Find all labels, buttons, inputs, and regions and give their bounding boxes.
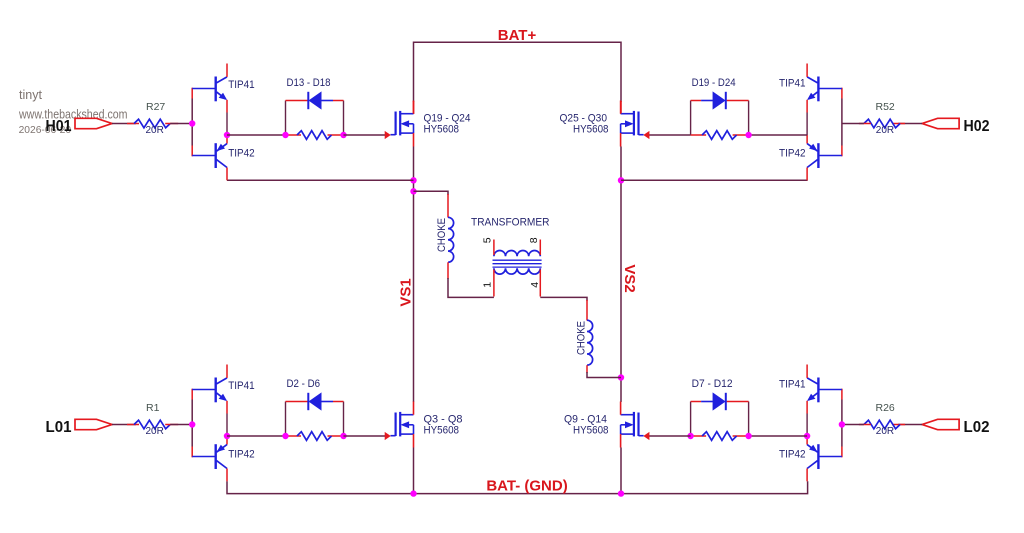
svg-text:20R: 20R (146, 426, 164, 437)
pin bottom-left TIP41 collector (226, 365, 228, 378)
pin R52 left (859, 123, 871, 125)
label L01 (46, 419, 72, 436)
label Q19 type (424, 124, 460, 136)
pin D13 - D18 anode (333, 100, 344, 102)
label VS1 (398, 278, 415, 306)
diode D19 - D24 (701, 92, 726, 109)
svg-text:L02: L02 (964, 419, 990, 436)
wire top-right output (749, 134, 808, 136)
junction BAT- right (618, 490, 624, 496)
pin bottom-left TIP41 emitter (226, 401, 228, 414)
pin T1 5 (493, 240, 495, 256)
diode D2 - D6 (308, 393, 333, 410)
transformer T1 secondary winding (494, 250, 540, 256)
pin top-right TIP42 collector (806, 168, 808, 181)
pin top-left damping resistor left (286, 134, 302, 136)
pin R1 left (127, 424, 139, 426)
wire top-left bases vertical (191, 88, 193, 157)
label R52 (876, 101, 895, 113)
wire R27 to bases (170, 123, 192, 125)
wire bottom-left diode branch (286, 402, 344, 437)
transistor bottom-left TIP41 (192, 378, 227, 403)
svg-text:R1: R1 (146, 402, 160, 414)
junction bottom-right diode box left (745, 433, 751, 439)
pin Q25 source (620, 133, 622, 146)
svg-text:1: 1 (481, 282, 493, 288)
wire bottom-right gate (649, 435, 691, 437)
mosfet Q3 - Q8 (391, 412, 414, 437)
wire VS1 to choke (414, 191, 449, 195)
pin D2 - D6 anode (333, 401, 344, 403)
label bottom-left TIP42 (228, 449, 255, 461)
pin R52 right (892, 123, 905, 125)
label top-right TIP41 (779, 78, 806, 90)
transistor top-left TIP41 (192, 77, 227, 102)
pin bottom-left TIP42 emitter (226, 436, 228, 445)
wire bottom-left output (227, 435, 286, 437)
pin Q19 drain top (413, 101, 415, 114)
svg-text:VS1: VS1 (398, 278, 415, 306)
svg-text:D13 - D18: D13 - D18 (287, 77, 331, 89)
svg-text:VS2: VS2 (621, 264, 638, 292)
label D7 - D12 (692, 378, 733, 390)
pin top-right TIP41 emitter (806, 100, 808, 113)
label R27 (146, 101, 165, 113)
label Q25 - Q30 (560, 113, 608, 125)
wire bottom-right output (749, 435, 808, 437)
resistor R52 (864, 119, 900, 128)
label R52 value (876, 125, 894, 136)
svg-text:D7 - D12: D7 - D12 (692, 378, 733, 390)
transformer T1 core (493, 260, 542, 267)
svg-text:TRANSFORMER: TRANSFORMER (471, 216, 550, 228)
label D13 - D18 (287, 77, 331, 89)
arrow top-right gate (644, 132, 649, 139)
pin top-left TIP41 emitter (226, 100, 228, 113)
pin bottom-right TIP42 collector (806, 469, 808, 482)
wire top-left diode branch (286, 101, 344, 136)
label H01 (46, 118, 72, 135)
label T1 pin 4 (529, 282, 541, 288)
label TRANSFORMER (471, 216, 550, 228)
watermark tinyt (19, 87, 42, 102)
port H02 (922, 118, 959, 128)
svg-text:TIP42: TIP42 (228, 148, 255, 160)
wire top-right bases vertical (841, 88, 843, 157)
pin top-right damping resistor left (691, 134, 707, 136)
resistor R26 (864, 420, 900, 429)
label R1 value (146, 426, 164, 437)
label Q3 type (424, 425, 460, 437)
pin choke L1 bottom (447, 262, 449, 279)
label T1 pin 5 (481, 237, 493, 243)
wire top-left output (227, 134, 286, 136)
label top-right TIP42 (779, 148, 806, 160)
label R27 value (146, 125, 164, 136)
svg-text:TIP41: TIP41 (228, 79, 255, 91)
svg-text:TIP41: TIP41 (228, 380, 255, 392)
label Q9 - Q14 (564, 414, 607, 426)
wire top-right TIP42 collector to VS2 (621, 179, 808, 181)
pin Q9 drain (620, 402, 622, 415)
junction bottom-right diode box right (687, 433, 693, 439)
label L2 CHOKE (576, 321, 588, 355)
resistor R27 (134, 119, 170, 128)
pin R1 right (165, 424, 178, 426)
svg-text:HY5608: HY5608 (424, 124, 460, 136)
svg-text:20R: 20R (146, 125, 164, 136)
pin Q9 source (620, 434, 622, 447)
port L02 (922, 419, 959, 429)
wire R26 to bases (842, 424, 864, 426)
pin R27 left (127, 123, 139, 125)
junction bottom-right input (839, 421, 845, 427)
wire bottom-left bases vertical (191, 389, 193, 458)
label T1 pin 8 (528, 237, 540, 243)
wire choke to transformer pin1 (448, 278, 494, 297)
pin R27 right (165, 123, 178, 125)
junction bottom-left output (224, 433, 230, 439)
junction top-left output (224, 132, 230, 138)
pin bottom-left damping resistor right (328, 435, 344, 437)
pin bottom-left TIP42 collector (226, 469, 228, 482)
label bottom-right TIP41 (779, 379, 806, 391)
label top-left TIP42 (228, 148, 255, 160)
label R26 (876, 402, 895, 414)
mosfet Q9 - Q14 (621, 412, 644, 437)
pin bottom-right damping resistor left (691, 435, 707, 437)
inductor L1 CHOKE (448, 217, 454, 262)
label R1 (146, 402, 160, 414)
junction bottom-left diode box left (282, 433, 288, 439)
pin D7 - D12 cathode (727, 401, 749, 403)
svg-text:HY5608: HY5608 (573, 124, 609, 136)
transistor top-right TIP42 (807, 143, 842, 168)
pin top-right TIP42 emitter (806, 135, 808, 144)
pin choke L1 top (447, 194, 449, 218)
transformer T1 primary winding (494, 268, 540, 274)
wire transformer pin4 to choke (540, 297, 587, 301)
port L01 (75, 419, 112, 429)
junction VS2 upper (618, 177, 624, 183)
pin D19 - D24 anode (691, 100, 702, 102)
svg-text:H02: H02 (964, 118, 990, 135)
watermark date (19, 124, 72, 136)
pin T1 4 (539, 270, 541, 297)
pin bottom-right TIP42 emitter (806, 436, 808, 445)
wire top-left TIP42 collector to VS1 (227, 179, 414, 181)
pin D7 - D12 anode (691, 401, 702, 403)
svg-text:TIP42: TIP42 (228, 449, 255, 461)
wire bottom-right port to resistor (898, 424, 922, 426)
pin bottom-left damping resistor left (286, 435, 302, 437)
junction top-left input (189, 120, 195, 126)
pin top-right TIP41 collector (806, 64, 808, 77)
wire top-left emitters (226, 113, 228, 136)
resistor bottom-right damping (702, 432, 737, 441)
svg-text:TIP41: TIP41 (779, 78, 806, 90)
pin bottom-right TIP41 emitter (806, 401, 808, 414)
pin D2 - D6 cathode (286, 401, 308, 403)
svg-text:BAT- (GND): BAT- (GND) (486, 478, 567, 495)
wire bottom-right emitters (806, 414, 808, 437)
label D19 - D24 (692, 77, 736, 89)
wire VS1 (413, 147, 415, 403)
label T1 pin 1 (481, 282, 493, 288)
pin T1 8 (539, 240, 541, 256)
svg-text:BAT+: BAT+ (498, 27, 537, 44)
label L02 (964, 419, 990, 436)
svg-text:20R: 20R (876, 426, 894, 437)
wire BAT- rail (227, 481, 808, 493)
inductor L2 CHOKE (587, 320, 593, 365)
pin D13 - D18 cathode (286, 100, 308, 102)
wire top-right gate (649, 134, 691, 136)
transistor top-right TIP41 (807, 77, 842, 102)
svg-text:TIP42: TIP42 (779, 148, 806, 160)
wire bottom-left port to resistor (112, 424, 136, 426)
wire bottom-right bases vertical (841, 389, 843, 458)
junction VS1 choke tap (410, 188, 416, 194)
svg-text:4: 4 (529, 282, 541, 288)
junction top-left diode box right (340, 132, 346, 138)
label top-left TIP41 (228, 79, 255, 91)
junction BAT- left (410, 490, 416, 496)
port H01 (75, 118, 112, 128)
pin D19 - D24 cathode (727, 100, 749, 102)
wire bottom-left emitters (226, 414, 228, 437)
svg-text:20R: 20R (876, 125, 894, 136)
pin top-left TIP42 emitter (226, 135, 228, 144)
junction VS2 choke tap (618, 374, 624, 380)
svg-text:D2 - D6: D2 - D6 (287, 378, 321, 390)
pin bottom-right damping resistor right (733, 435, 749, 437)
wire top-right emitters (806, 113, 808, 136)
arrow bottom-right gate (644, 433, 649, 440)
wire Q3 source to BAT- (413, 448, 415, 494)
svg-text:L01: L01 (46, 419, 72, 436)
wire bottom-right diode branch (691, 402, 749, 437)
mosfet Q25 - Q30 (621, 111, 644, 135)
pin Q25 drain top (620, 101, 622, 114)
wire R1 to bases (170, 424, 192, 426)
wire top-left port to resistor (112, 123, 136, 125)
pin top-left damping resistor right (328, 134, 344, 136)
arrow top-left gate (385, 132, 390, 139)
svg-text:H01: H01 (46, 118, 72, 135)
wire choke to VS2 (587, 372, 621, 378)
label VS2 (621, 264, 638, 292)
junction bottom-left input (189, 421, 195, 427)
svg-text:tinyt: tinyt (19, 87, 42, 102)
diode D13 - D18 (308, 92, 333, 109)
pin bottom-right TIP41 collector (806, 365, 808, 378)
svg-text:CHOKE: CHOKE (576, 321, 588, 355)
pin Q19 drain (413, 101, 415, 114)
svg-text:R26: R26 (876, 402, 895, 414)
junction VS1 upper (410, 177, 416, 183)
wire R52 to bases (842, 123, 864, 125)
label Q9 type (573, 425, 609, 437)
wire VS2 (620, 147, 622, 403)
pin top-right damping resistor right (733, 134, 749, 136)
label bottom-right TIP42 (779, 449, 806, 461)
resistor R1 (134, 420, 170, 429)
wire top-left gate (344, 134, 386, 136)
junction bottom-left diode box right (340, 433, 346, 439)
transistor top-left TIP42 (192, 143, 227, 168)
diode D7 - D12 (701, 393, 726, 410)
pin R26 right (892, 424, 905, 426)
wire bottom-left gate (344, 435, 386, 437)
label BAT- (GND) (486, 478, 567, 495)
watermark url (18, 108, 127, 122)
resistor top-right damping (702, 131, 737, 140)
wire top-right diode branch (691, 101, 749, 136)
label D2 - D6 (287, 378, 321, 390)
pin top-left TIP41 collector (226, 64, 228, 77)
svg-text:8: 8 (528, 237, 540, 243)
pin choke L2 bottom (586, 365, 588, 373)
pin R26 left (859, 424, 871, 426)
pin top-left TIP42 collector (226, 168, 228, 181)
pin choke L2 top (586, 300, 588, 321)
transistor bottom-left TIP42 (192, 444, 227, 469)
label H02 (964, 118, 990, 135)
label Q19 - Q24 (424, 113, 471, 125)
pin Q3 drain (413, 402, 415, 415)
junction top-left diode box left (282, 132, 288, 138)
transistor bottom-right TIP41 (807, 378, 842, 403)
wire BAT+ rail (414, 42, 622, 102)
label bottom-left TIP41 (228, 380, 255, 392)
label Q25 type (573, 124, 609, 136)
label R26 value (876, 426, 894, 437)
svg-text:R27: R27 (146, 101, 165, 113)
svg-text:www.thebackshed.com: www.thebackshed.com (18, 108, 127, 122)
svg-text:TIP41: TIP41 (779, 379, 806, 391)
mosfet Q19 - Q24 (391, 111, 414, 135)
svg-text:5: 5 (481, 237, 493, 243)
transistor bottom-right TIP42 (807, 444, 842, 469)
pin Q19 source (413, 133, 415, 146)
wire top-right port to resistor (898, 123, 922, 125)
arrow bottom-left gate (385, 433, 390, 440)
wire Q9 source to BAT- (620, 448, 622, 494)
pin T1 1 (493, 270, 495, 297)
svg-text:R52: R52 (876, 101, 895, 113)
resistor top-left damping (297, 131, 332, 140)
pin Q3 source (413, 434, 415, 447)
svg-text:TIP42: TIP42 (779, 449, 806, 461)
label L1 CHOKE (436, 218, 448, 252)
label Q3 - Q8 (424, 414, 463, 426)
pin Q25 drain (620, 101, 622, 114)
svg-text:CHOKE: CHOKE (436, 218, 448, 252)
junction top-right diode box left (745, 132, 751, 138)
svg-text:HY5608: HY5608 (424, 425, 460, 437)
label BAT+ (498, 27, 537, 44)
resistor bottom-left damping (297, 432, 332, 441)
junction bottom-right output (804, 433, 810, 439)
svg-text:D19 - D24: D19 - D24 (692, 77, 736, 89)
svg-text:HY5608: HY5608 (573, 425, 609, 437)
